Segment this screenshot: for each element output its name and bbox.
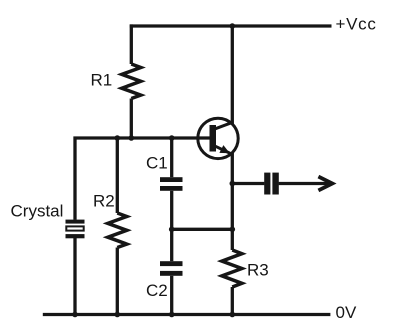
svg-text:Crystal: Crystal — [11, 202, 64, 221]
svg-text:C1: C1 — [146, 154, 168, 173]
svg-text:+Vcc: +Vcc — [336, 14, 377, 33]
svg-text:0V: 0V — [336, 303, 357, 322]
svg-text:R2: R2 — [93, 192, 115, 211]
svg-text:R3: R3 — [247, 261, 269, 280]
svg-text:R1: R1 — [91, 70, 113, 89]
svg-text:C2: C2 — [146, 281, 168, 300]
